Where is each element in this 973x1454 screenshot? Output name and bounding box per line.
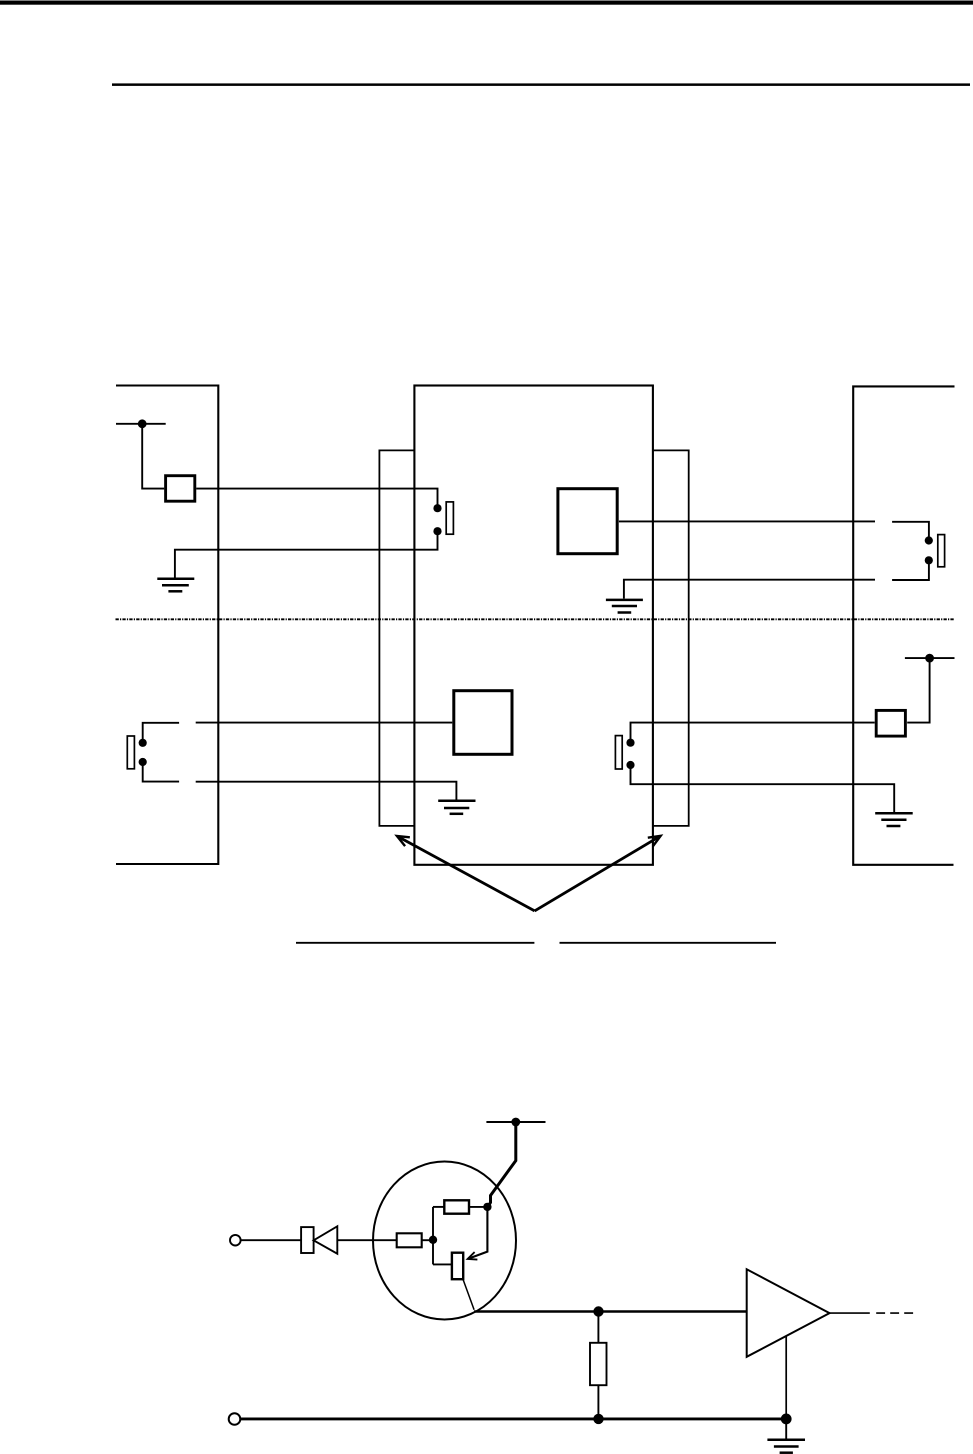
contact dot <box>626 739 634 747</box>
input resistor <box>397 1233 422 1247</box>
wire resistor to node <box>422 1239 433 1241</box>
left unit box (CNC) <box>116 386 218 865</box>
wire diode to resistor <box>337 1239 396 1241</box>
contact dot <box>139 739 147 747</box>
bridge bottom wire <box>433 1263 452 1265</box>
relay box (right unit) <box>876 710 905 736</box>
variable resistor <box>452 1253 463 1280</box>
supply feed polyline <box>488 1122 516 1207</box>
bridge top resistor <box>444 1200 469 1213</box>
left connector shell <box>379 450 414 826</box>
signal wire to middle connector <box>196 489 437 505</box>
dash-dot section divider <box>116 618 955 620</box>
signal wire (lower, to right unit) <box>631 723 875 739</box>
caption underline left <box>296 942 534 944</box>
ground stem (bottom) <box>785 1419 787 1439</box>
ground (right unit) <box>875 813 913 826</box>
signal wire to right connector <box>619 520 875 522</box>
input terminal <box>230 1235 241 1246</box>
contact dot <box>139 758 147 766</box>
wire shunt to bottom <box>597 1385 599 1419</box>
relay box (left unit) <box>166 476 195 502</box>
detail balloon circle <box>373 1162 516 1320</box>
+24V stub wire (right unit) <box>905 657 955 659</box>
junction dot <box>593 1306 603 1316</box>
node dot <box>483 1203 491 1211</box>
right connector shell <box>654 450 689 826</box>
left connector bracket bottom <box>143 766 179 782</box>
diode triangle <box>314 1226 338 1253</box>
ground wire (lower right) <box>631 769 895 813</box>
leader arrow left <box>398 837 535 911</box>
amp ground drop <box>785 1337 787 1420</box>
bottom wire <box>241 1417 786 1420</box>
connector pin plate (middle unit, lower right) <box>615 736 622 769</box>
adjust arrow <box>469 1210 488 1259</box>
diode cathode bar <box>301 1227 314 1253</box>
contact dot <box>925 556 933 564</box>
contact dot <box>925 536 933 544</box>
ground (bottom diagram) <box>767 1440 805 1453</box>
bridge left riser <box>432 1207 434 1265</box>
ground return wire <box>175 535 438 579</box>
header rule <box>112 83 970 86</box>
terminator box (middle unit, upper) <box>558 489 617 554</box>
ground (middle unit upper) <box>606 600 643 613</box>
left connector bracket top <box>143 723 179 739</box>
signal wire (lower, to middle unit) <box>196 722 453 724</box>
junction dot <box>138 419 147 428</box>
wire relay to riser <box>907 658 929 723</box>
contact dot <box>433 527 441 535</box>
connector pin plate (left unit, lower) <box>127 736 134 769</box>
+24V stub wire <box>116 423 166 425</box>
ground (middle unit lower) <box>438 801 475 814</box>
bridge top wire <box>433 1206 444 1208</box>
terminator box (middle unit, lower) <box>454 691 512 755</box>
balloon leader line <box>463 1279 474 1310</box>
wire down from dot <box>142 424 164 489</box>
bridge top wire right <box>469 1206 487 1208</box>
main wire <box>474 1310 747 1312</box>
right connector bracket top <box>892 522 929 537</box>
right unit box (remote unit) <box>853 386 954 864</box>
connector pin plate (right unit) <box>938 535 945 567</box>
right connector bracket bottom <box>892 564 929 581</box>
wire to shunt resistor <box>597 1312 599 1343</box>
amplifier triangle <box>747 1269 830 1357</box>
junction dot <box>593 1414 603 1424</box>
junction dot <box>925 654 934 663</box>
connector pin plate <box>446 502 453 534</box>
node dot <box>429 1236 437 1244</box>
middle unit box (optical adapter) <box>414 386 653 865</box>
leader arrow right <box>535 836 660 911</box>
input wire <box>241 1239 301 1241</box>
supply rail <box>486 1121 545 1123</box>
ground stem corner (middle unit) <box>624 580 875 599</box>
ground (left unit) <box>157 579 194 592</box>
output dashes <box>876 1312 914 1314</box>
shunt resistor <box>590 1343 607 1385</box>
ground wire (lower) <box>196 782 457 800</box>
contact dot <box>626 761 634 769</box>
bottom terminal <box>229 1413 241 1425</box>
contact dot <box>433 504 441 512</box>
caption underline right <box>560 942 777 944</box>
junction dot <box>781 1414 792 1425</box>
output wire <box>830 1312 870 1314</box>
page header bar <box>0 1 973 5</box>
junction dot <box>511 1118 520 1127</box>
